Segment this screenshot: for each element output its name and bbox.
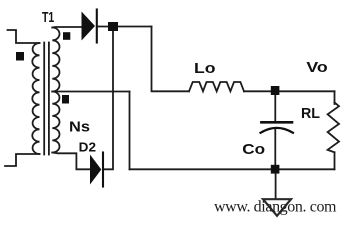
svg-text:Vo: Vo: [306, 59, 327, 76]
node Vo junction square: [271, 86, 280, 95]
bottom rail junction square: [271, 165, 280, 174]
wire center tap down to bottom rail: [129, 92, 131, 170]
transformer T1 secondary winding upper half: [52, 28, 59, 92]
wire Vo junction down to Co top plate: [274, 91, 276, 121]
diode D2 cathode bar: [102, 153, 104, 187]
svg-text:Co: Co: [242, 141, 265, 158]
wire secondary top to D1 anode: [52, 26, 81, 29]
resistor RL zigzag: [328, 103, 339, 153]
wire Vo node down right branch to RL: [334, 91, 336, 104]
capacitor Co curved bottom plate: [261, 128, 294, 133]
wire Lo to Vo node: [244, 90, 335, 92]
node A junction square: [108, 22, 118, 31]
wire RL bottom to rail: [334, 152, 336, 169]
capacitor Co top plate: [261, 121, 292, 124]
diode D1 cathode bar: [96, 10, 98, 43]
diode D2 triangle: [90, 155, 101, 185]
svg-text:www. diangon. com: www. diangon. com: [214, 199, 337, 216]
wire center tap of secondary: [52, 91, 129, 93]
svg-text:RL: RL: [301, 106, 320, 122]
transformer T1 primary winding: [32, 43, 39, 154]
wire node A down to D2 cathode rail: [104, 27, 114, 170]
diode D1 triangle: [82, 12, 96, 41]
inductor Lo winding: [189, 82, 244, 91]
svg-text:Ns: Ns: [69, 118, 90, 135]
wire primary bottom lead: [5, 154, 40, 166]
wire secondary bottom lead to D2 anode: [52, 153, 90, 170]
wire ground stem: [275, 169, 277, 198]
transformer core line 2: [48, 43, 50, 155]
wire primary top lead: [8, 30, 40, 43]
wire bottom rail: [130, 168, 335, 170]
ground symbol: [263, 199, 291, 216]
wire node A drop to y91 and to Lo: [152, 27, 190, 92]
polarity dot secondary top: [63, 32, 70, 40]
polarity dot primary: [16, 52, 24, 61]
transformer T1 secondary winding lower half (Ns): [52, 92, 59, 153]
svg-text:Lo: Lo: [194, 60, 216, 77]
svg-text:D2: D2: [79, 140, 96, 154]
polarity dot secondary Ns: [62, 95, 69, 104]
svg-text:T1: T1: [42, 10, 54, 26]
transformer core line 1: [43, 43, 45, 155]
wire Co bottom to rail junction: [274, 130, 276, 170]
wire D1 cathode to node A and right: [97, 26, 152, 28]
